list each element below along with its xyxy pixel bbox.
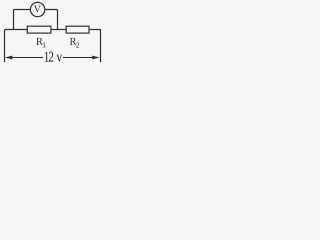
wire between resistors — [51, 29, 67, 31]
12V dimension arrow left — [5, 56, 43, 60]
12V dimension arrow right — [63, 56, 100, 60]
label R2 letter R — [70, 38, 77, 45]
label R1 letter R — [36, 38, 43, 45]
label R2 subscript 2 — [76, 42, 79, 47]
resistor R1 body — [27, 26, 51, 33]
wire middle right with right rail — [89, 30, 101, 63]
label 12v digit 1 — [45, 52, 49, 62]
wire voltmeter right lead — [45, 10, 58, 30]
wire middle left with left rail — [5, 30, 28, 63]
wire voltmeter left lead — [14, 10, 31, 30]
resistor R2 body — [66, 26, 89, 33]
voltmeter V circle — [30, 2, 44, 16]
background — [0, 0, 108, 69]
voltmeter V glyph — [34, 6, 41, 13]
label 12v letter v — [57, 55, 63, 62]
label R1 subscript 1 — [43, 42, 46, 47]
label 12v digit 2 — [49, 52, 53, 62]
